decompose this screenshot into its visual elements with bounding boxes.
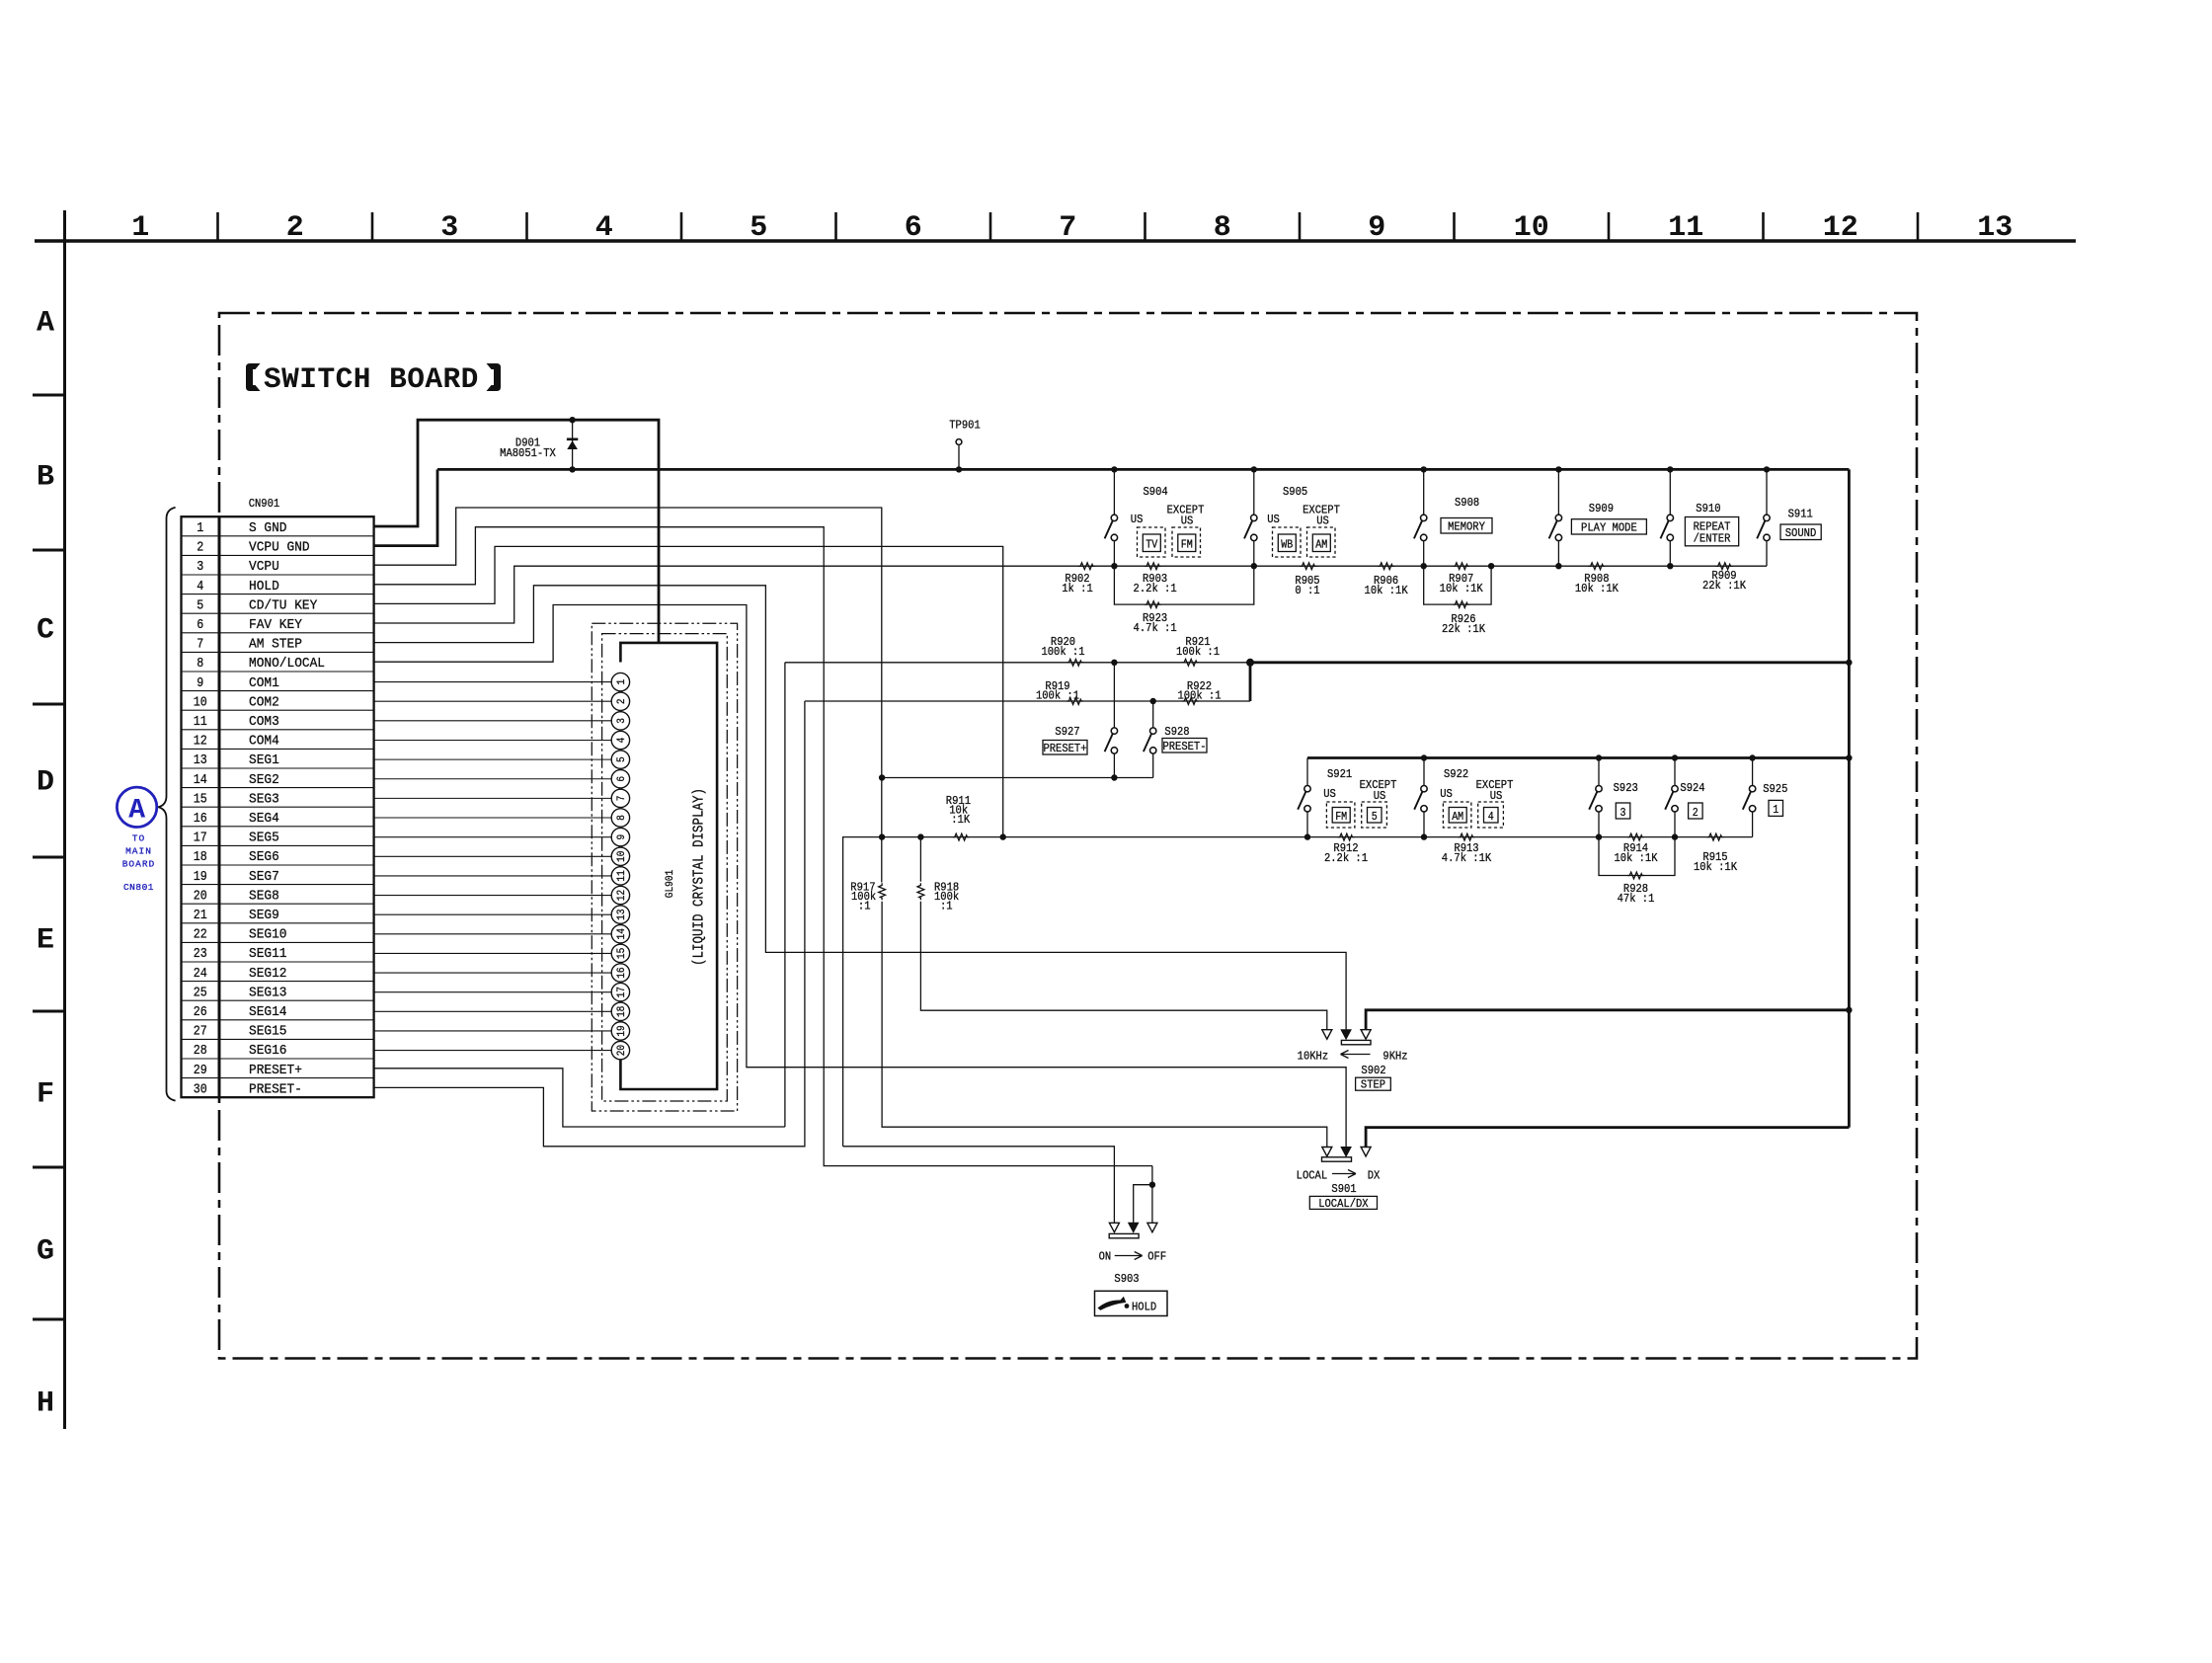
svg-text:6: 6 [197,618,203,633]
svg-text:S902: S902 [1361,1064,1385,1077]
wire SEG15 to LCD pin 19 [374,1030,612,1032]
border ruler line [35,239,2076,242]
svg-text:SEG12: SEG12 [249,966,287,982]
svg-text:US: US [1323,787,1336,801]
svg-text:MA8051-TX: MA8051-TX [500,446,556,460]
svg-text:20: 20 [616,1045,628,1056]
svg-text:1: 1 [131,211,149,245]
svg-text:OFF: OFF [1147,1250,1166,1264]
resistor R921 100k [1182,659,1199,666]
svg-text:US: US [1181,515,1194,528]
svg-text:8: 8 [616,815,628,821]
svg-text:SEG8: SEG8 [249,888,279,904]
svg-text:2: 2 [286,211,304,245]
svg-text:S904: S904 [1144,485,1168,499]
svg-text:0 :1: 0 :1 [1295,584,1319,597]
svg-text:2: 2 [197,541,203,556]
switch S904 TV/FM [1111,466,1117,472]
wire SEG13 to LCD pin 17 [374,991,612,993]
wire S GND (pin1) to LCD frame [374,420,659,643]
svg-text:3: 3 [616,718,628,724]
LCD pin 12 [611,886,629,904]
svg-text:FM: FM [1181,539,1193,552]
junction S922/ladder2 [1421,833,1427,839]
svg-text:S921: S921 [1327,767,1352,781]
R919/R922 preset- line [805,700,1250,702]
svg-text:7: 7 [1059,211,1076,245]
svg-text:PRESET-: PRESET- [249,1081,302,1097]
bypass resistor R928 47k [1599,837,1675,876]
svg-text:13: 13 [194,753,207,768]
resistor R917 100k (VCPU to S901 local) [879,883,886,900]
svg-text:S925: S925 [1763,782,1787,796]
svg-text:7: 7 [616,796,628,802]
svg-text:16: 16 [194,812,207,827]
svg-text:28: 28 [194,1044,207,1059]
junction S923/ladder2 [1596,833,1602,839]
LCD inner dash-dot border [602,634,728,1101]
svg-text:19: 19 [194,870,207,885]
wire VCPU (pin3) [374,508,882,883]
svg-text:HOLD: HOLD [249,579,279,594]
LCD pin 7 [611,789,629,807]
LCD pin 8 [611,809,629,827]
svg-text:LOCAL/DX: LOCAL/DX [1318,1197,1369,1211]
R917/VCPU riser lower part [882,902,1327,1148]
svg-text:1: 1 [616,678,628,684]
svg-text:22k :1K: 22k :1K [1702,579,1747,593]
svg-text:29: 29 [194,1064,207,1078]
LCD pin 4 [611,731,629,749]
wire MONO/LOCAL (pin8) [374,605,1347,1148]
svg-text:SEG5: SEG5 [249,831,279,846]
svg-text:14: 14 [194,773,207,788]
svg-text:SEG13: SEG13 [249,985,287,1000]
svg-text:COM3: COM3 [249,714,279,730]
svg-text:17: 17 [194,831,207,846]
svg-text::1: :1 [858,900,871,913]
svg-text:S911: S911 [1788,508,1813,521]
svg-text:23: 23 [194,947,207,962]
svg-text:4: 4 [197,580,203,594]
junction S921/ladder2 [1304,833,1310,839]
LCD pin 5 [611,751,629,768]
svg-text:C: C [37,614,54,648]
LCD pin 11 [611,867,629,885]
svg-text:ON: ON [1099,1250,1112,1264]
svg-text:12: 12 [1823,211,1858,245]
svg-text:10KHz: 10KHz [1298,1050,1329,1064]
svg-text:S909: S909 [1589,502,1614,515]
svg-text:13: 13 [616,909,628,919]
svg-text:9: 9 [616,834,628,840]
switch S903 [1109,1223,1119,1232]
svg-text:H: H [37,1387,54,1421]
junction R907/R926 right [1488,563,1494,569]
svg-text:TO: TO [132,833,145,844]
svg-text:3: 3 [197,560,203,575]
ruler column numbers 1-13 [131,211,2013,245]
svg-text:13: 13 [1977,211,2013,245]
S925 drop to ladder2 [1752,812,1754,837]
svg-text:SOUND: SOUND [1785,526,1817,540]
svg-text:S924: S924 [1680,781,1704,795]
resistor R914 10k [1627,833,1644,840]
svg-text:SEG10: SEG10 [249,927,287,943]
svg-text:D: D [37,766,54,800]
svg-text:A: A [128,796,145,827]
svg-text:10k :1K: 10k :1K [1694,860,1738,874]
svg-text:25: 25 [194,986,207,1000]
svg-text:8: 8 [1214,211,1231,245]
svg-text:AM: AM [1315,539,1327,552]
svg-text:15: 15 [194,792,207,807]
resistor R905 0 [1300,563,1316,570]
svg-text:5: 5 [197,598,203,613]
svg-text:2: 2 [1693,807,1698,820]
LCD pin 3 [611,712,629,730]
LCD pin 6 [611,770,629,788]
right thick vertical rail [1848,469,1851,1127]
wire SEG11 to LCD pin 15 [374,952,612,954]
junction S924/ladder2 [1672,833,1678,839]
svg-text:SEG15: SEG15 [249,1024,287,1040]
LCD pin 2 [611,692,629,710]
svg-text:4.7k :1K: 4.7k :1K [1442,851,1492,865]
svg-text:G: G [37,1235,54,1269]
wire COM4 to LCD pin 4 [374,739,612,741]
wire PRESET- (pin30) [374,701,805,1147]
LCD pin 13 [611,906,629,923]
svg-text:LOCAL: LOCAL [1297,1169,1328,1183]
resistor R919 100k [1066,698,1083,705]
svg-text:COM2: COM2 [249,694,279,710]
thick tie line-2 to bus2 [1249,663,1252,701]
svg-text:22k :1K: 22k :1K [1442,622,1486,636]
svg-text:20: 20 [194,889,207,904]
svg-text:2.2k :1: 2.2k :1 [1324,851,1368,865]
wire SEG6 to LCD pin 10 [374,855,612,857]
svg-text:14: 14 [616,928,628,940]
svg-text:TP901: TP901 [949,419,981,433]
resistor R911 10k [953,833,970,840]
LCD pin 1 [611,673,629,690]
wire PRESET+ (pin29) [374,1069,785,1127]
riser PRESET+ to R920 line [784,663,786,1127]
node A to main board [117,787,156,827]
svg-text:12: 12 [616,890,628,901]
svg-text:3: 3 [440,211,458,245]
svg-text:6: 6 [905,211,922,245]
S903 common/off tie to HOLD [1151,1166,1153,1224]
wire FAV KEY (pin6) feeds resistor ladder [374,566,1767,623]
svg-text:SEG11: SEG11 [249,946,287,962]
svg-text:SEG2: SEG2 [249,772,279,788]
svg-text:11: 11 [194,715,207,730]
svg-text:SEG7: SEG7 [249,869,279,885]
svg-text:10: 10 [1514,211,1549,245]
wire SEG3 to LCD pin 7 [374,797,612,799]
svg-text:MEMORY: MEMORY [1448,520,1485,534]
switch S922 AM/4 [1421,754,1427,760]
LCD pin 20 [611,1041,629,1059]
title bracket left [246,363,261,391]
svg-text:100k :1: 100k :1 [1036,689,1079,703]
svg-text:10k :1K: 10k :1K [1575,582,1619,595]
resistor R903 2.2k [1145,563,1161,570]
svg-text:11: 11 [616,870,628,882]
bus VCPU GND top rail [437,468,1849,471]
title bracket right [487,363,502,391]
junction diode bottom [569,466,575,472]
LCD pin 9 [611,828,629,845]
junction S909/ladder [1555,563,1561,569]
svg-text:WB: WB [1281,539,1293,552]
wire AM STEP (pin7) [374,586,1347,1030]
svg-text:18: 18 [194,850,207,865]
svg-text:/ENTER: /ENTER [1694,532,1731,546]
svg-text:10: 10 [616,851,628,862]
svg-text:12: 12 [194,735,207,750]
switch S909 PLAY MODE [1555,466,1561,472]
svg-text:1: 1 [1773,804,1778,817]
svg-text:3: 3 [1620,807,1626,820]
ruler column ticks [218,212,1919,241]
LCD pin 17 [611,983,629,1000]
resistor R902 1k [1078,563,1095,570]
svg-text:SWITCH BOARD: SWITCH BOARD [264,362,479,396]
preset switches common wire [882,777,1153,779]
wire HOLD (pin4) [374,527,1152,1166]
svg-text:US: US [1267,513,1280,526]
wire SEG5 to LCD pin 9 [374,836,612,838]
svg-text:47k :1: 47k :1 [1618,892,1655,906]
resistor R913 4.7k [1459,833,1475,840]
svg-text:VCPU: VCPU [249,559,279,575]
switch S911 SOUND [1764,466,1770,472]
switch S921 FM/5 [1306,758,1308,786]
svg-text:1: 1 [197,521,203,536]
svg-text:HOLD: HOLD [1132,1300,1156,1313]
LCD outer dash-dot border [592,623,737,1111]
svg-text:10: 10 [194,695,207,710]
svg-text:16: 16 [616,967,628,978]
resistor R909 22k [1716,563,1733,570]
svg-text:BOARD: BOARD [122,859,156,870]
resistor R907 10k [1453,563,1469,570]
svg-text:2: 2 [616,698,628,704]
switch S905 WB/AM [1251,466,1257,472]
resistor R908 10k [1588,563,1605,570]
svg-text:VCPU GND: VCPU GND [249,540,310,556]
svg-text:AM STEP: AM STEP [249,637,302,653]
svg-text:1k :1: 1k :1 [1062,582,1093,595]
switch S902 STEP [1322,1030,1332,1040]
svg-text:24: 24 [194,967,207,982]
svg-text:11: 11 [1668,211,1703,245]
bypass resistor R923 4.7k [1114,566,1253,604]
svg-text:S901: S901 [1331,1182,1356,1196]
wire SEG12 to LCD pin 16 [374,972,612,974]
LCD pin 14 [611,925,629,943]
svg-text:S922: S922 [1444,767,1468,781]
svg-text:5: 5 [616,756,628,762]
svg-text:SEG14: SEG14 [249,1004,287,1020]
wire SEG1 to LCD pin 5 [374,758,612,760]
switch S928 PRESET- [1150,698,1156,704]
ladder2 rail [843,837,1307,1147]
svg-text:US: US [1490,789,1503,803]
brace left of CN901 [159,508,176,1101]
LCD pin 15 [611,944,629,962]
svg-text:6: 6 [616,776,628,782]
svg-text:FAV KEY: FAV KEY [249,617,302,633]
wire SEG14 to LCD pin 18 [374,1010,612,1012]
svg-text:CN901: CN901 [249,497,279,511]
wire SEG10 to LCD pin 14 [374,933,612,935]
LCD frame GL901 [620,643,717,1089]
svg-text:30: 30 [194,1082,207,1097]
svg-text:AM: AM [1452,811,1463,824]
svg-text:22: 22 [194,928,207,943]
svg-text:GL901: GL901 [665,869,676,898]
svg-text:FM: FM [1335,811,1347,824]
svg-text:7: 7 [197,638,203,653]
svg-text:E: E [37,924,54,958]
svg-text:US: US [1440,787,1453,801]
junction S908/ladder [1421,563,1427,569]
bus2 thick rail [1250,661,1849,664]
junction CD/TU riser/ladder2 [1000,833,1006,839]
svg-text:10k :1K: 10k :1K [1614,851,1658,865]
junction VCPU riser/ladder2 [879,833,885,839]
switch S910 REPEAT/ENTER [1667,466,1673,472]
svg-text:PLAY MODE: PLAY MODE [1581,521,1637,535]
svg-text:100k :1: 100k :1 [1177,689,1221,703]
svg-text:8: 8 [197,657,203,672]
LCD pin 19 [611,1022,629,1040]
svg-text:10k :1K: 10k :1K [1365,584,1409,597]
wire SEG9 to LCD pin 13 [374,913,612,915]
wire ladder2-left to S903 [843,1147,1115,1224]
svg-text:4: 4 [595,211,613,245]
bus LOCAL/DX rail [1366,1128,1849,1148]
LCD pin 10 [611,847,629,865]
diode D901 MA8051-TX [572,420,574,469]
svg-text:CD/TU KEY: CD/TU KEY [249,597,318,613]
svg-text:S903: S903 [1114,1272,1139,1286]
svg-text:9: 9 [1368,211,1385,245]
bus row2 thick rail [1307,756,1849,759]
wire SEG2 to LCD pin 6 [374,778,612,780]
row letters A-H [37,307,54,1421]
svg-text:MONO/LOCAL: MONO/LOCAL [249,656,325,672]
svg-text:SEG4: SEG4 [249,811,279,827]
svg-text::1: :1 [940,900,953,913]
resistor R922 100k [1182,698,1199,705]
switch S927 PRESET+ [1111,660,1117,666]
svg-text:2.2k :1: 2.2k :1 [1134,582,1177,595]
svg-text:F: F [37,1078,54,1112]
svg-text:COM4: COM4 [249,734,279,750]
svg-text:4.7k :1: 4.7k :1 [1134,621,1177,635]
bypass resistor R926 22k [1424,566,1491,604]
svg-text::1K: :1K [951,813,970,827]
svg-text:17: 17 [616,987,628,997]
svg-text:15: 15 [616,948,628,959]
LCD pin 18 [611,1002,629,1020]
junction S904/ladder [1111,563,1117,569]
switch S924 [2] [1672,754,1678,760]
LCD pin 16 [611,964,629,982]
svg-text:19: 19 [616,1025,628,1036]
resistor R915 10k [1707,833,1724,840]
connector CN901 table [182,516,374,1097]
svg-text:B: B [37,461,54,495]
wire CD/TU KEY (pin5) [374,546,1003,836]
junction R918/ladder2 [917,833,923,839]
wire SEG7 to LCD pin 11 [374,875,612,877]
svg-text:US: US [1374,789,1386,803]
resistor R918 100k (ladder2 to S902 10KHz) [919,837,921,882]
svg-text:S927: S927 [1055,725,1079,739]
row ticks left [33,395,65,1319]
resistor R906 10k [1378,563,1394,570]
wire COM1 to LCD pin 1 [374,681,612,683]
wire VCPU GND (pin2) to bus [374,469,437,545]
svg-text:TV: TV [1145,539,1157,552]
svg-text:9KHz: 9KHz [1382,1050,1407,1064]
switch S908 MEMORY [1421,466,1427,472]
svg-text:S928: S928 [1164,725,1189,739]
svg-text:US: US [1131,513,1144,526]
wire COM3 to LCD pin 3 [374,720,612,722]
R920/R921 preset+ line [785,662,1250,664]
svg-text:26: 26 [194,1005,207,1020]
wire SEG8 to LCD pin 12 [374,895,612,897]
switch S923 [3] [1596,754,1602,760]
svg-text:100k :1: 100k :1 [1041,645,1084,659]
border left vertical [63,210,66,1429]
svg-text:4: 4 [1488,811,1494,824]
junction diode top [569,417,575,423]
svg-text:US: US [1316,515,1329,528]
svg-text:21: 21 [194,909,207,923]
svg-text:DX: DX [1368,1169,1381,1183]
svg-text:10k :1K: 10k :1K [1440,582,1484,595]
svg-text:PRESET+: PRESET+ [1043,742,1086,755]
wire COM2 to LCD pin 2 [374,700,612,702]
svg-text:S910: S910 [1696,502,1720,515]
svg-text:SEG6: SEG6 [249,849,279,865]
svg-text:SEG3: SEG3 [249,791,279,807]
svg-text:A: A [37,307,54,341]
svg-text:COM1: COM1 [249,675,279,691]
svg-text:S GND: S GND [249,520,287,536]
wire SEG16 to LCD pin 20 [374,1050,612,1052]
svg-text:18: 18 [616,1006,628,1017]
switch S925 [1] [1749,754,1755,760]
resistor R912 2.2k [1338,833,1355,840]
junction S905/ladder [1251,563,1257,569]
svg-text:S905: S905 [1283,485,1307,499]
svg-text:SEG1: SEG1 [249,752,279,768]
svg-text:100k :1: 100k :1 [1176,645,1220,659]
svg-text:9: 9 [197,676,203,691]
svg-text:S923: S923 [1614,781,1638,795]
svg-text:4: 4 [616,737,628,743]
ladder end rise to S911 [1766,540,1768,566]
